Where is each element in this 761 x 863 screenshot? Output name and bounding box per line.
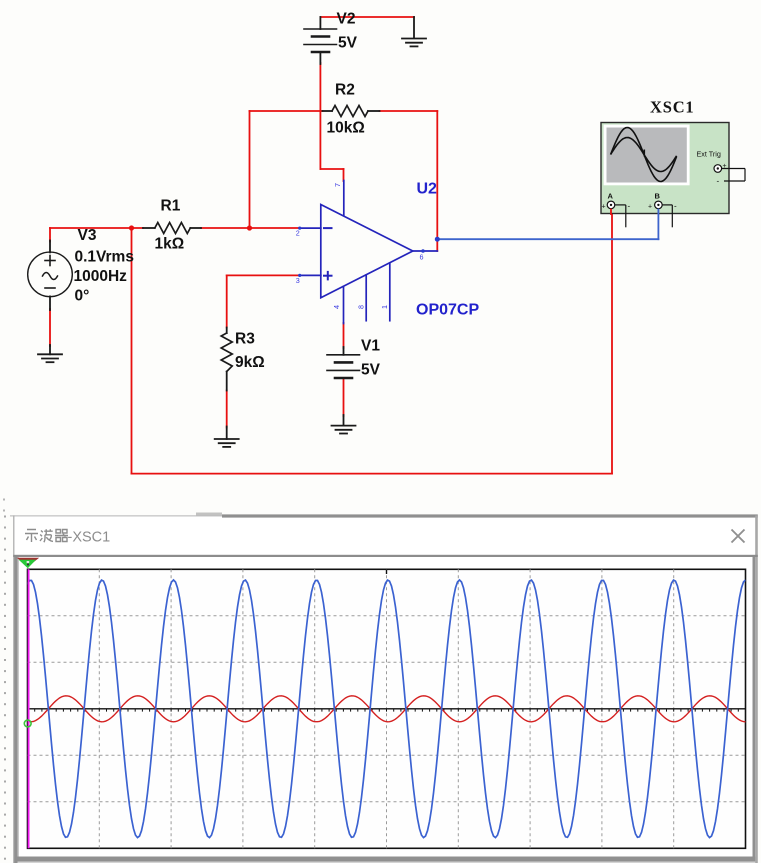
svg-text:1: 1 [380, 305, 389, 309]
svg-text:A: A [608, 192, 614, 201]
svg-text:+: + [723, 163, 727, 170]
svg-text:R2: R2 [335, 82, 355, 99]
svg-text:4: 4 [332, 305, 341, 309]
svg-text:1kΩ: 1kΩ [155, 236, 185, 253]
svg-text:OP07CP: OP07CP [416, 302, 479, 319]
svg-text:1000Hz: 1000Hz [74, 268, 128, 285]
svg-text:XSC1: XSC1 [650, 98, 694, 117]
svg-text:Ext Trig: Ext Trig [697, 150, 721, 159]
svg-text:9kΩ: 9kΩ [235, 354, 265, 371]
svg-text:R3: R3 [235, 331, 255, 348]
svg-text:0°: 0° [75, 288, 90, 305]
svg-text:+: + [602, 204, 606, 211]
svg-text:-: - [674, 202, 677, 211]
svg-text:5V: 5V [361, 362, 381, 379]
svg-text:B: B [655, 192, 661, 201]
svg-text:5V: 5V [338, 35, 358, 52]
svg-text:R1: R1 [161, 198, 181, 215]
svg-text:6: 6 [420, 253, 424, 262]
svg-text:0.1Vrms: 0.1Vrms [75, 249, 134, 266]
svg-text:3: 3 [296, 276, 300, 285]
svg-text:7: 7 [333, 183, 342, 187]
svg-text:V2: V2 [337, 11, 356, 28]
svg-text:10kΩ: 10kΩ [327, 120, 365, 137]
svg-text:U2: U2 [417, 181, 438, 198]
svg-text:V3: V3 [78, 227, 97, 244]
svg-text:-XSC1: -XSC1 [68, 530, 111, 546]
svg-text:-: - [628, 202, 631, 211]
svg-text:2: 2 [296, 229, 300, 238]
svg-text:V1: V1 [361, 338, 380, 355]
svg-text:-: - [717, 177, 720, 186]
svg-text:+: + [648, 204, 652, 211]
svg-text:8: 8 [357, 305, 366, 309]
